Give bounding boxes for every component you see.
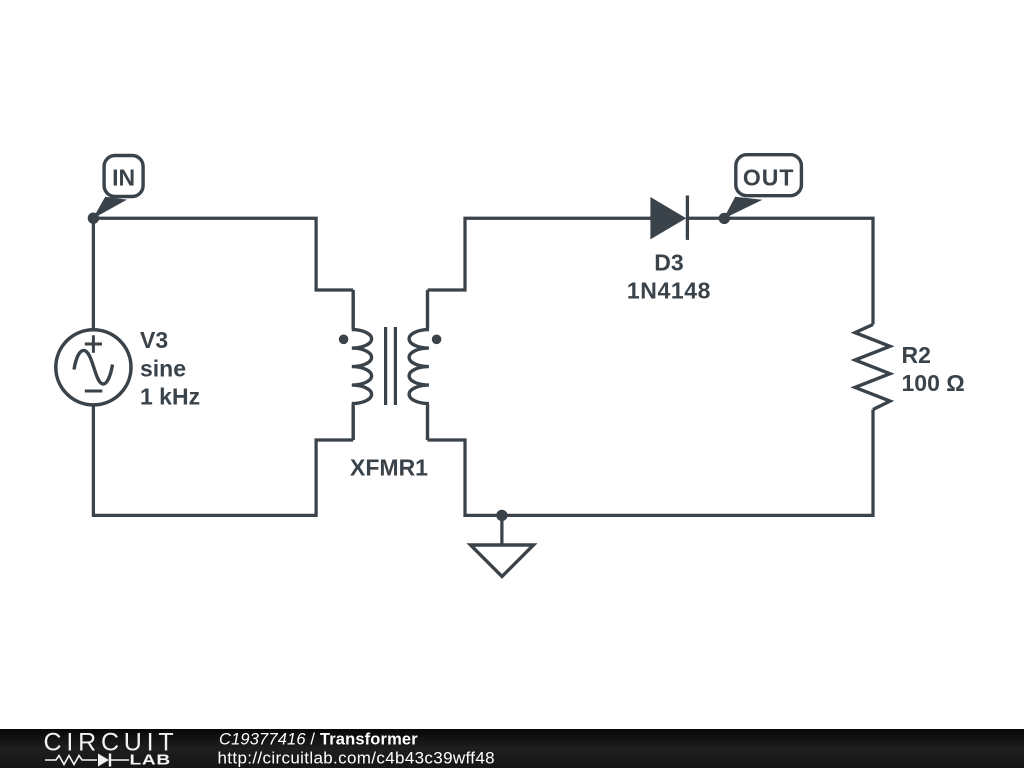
svg-text:IN: IN — [112, 164, 135, 190]
transformer XFMR1 right winding — [409, 290, 429, 440]
wire V3 bottom lead and primary bottom loop — [93, 405, 353, 516]
node dot OUT — [719, 213, 730, 224]
svg-text:sine: sine — [140, 355, 186, 381]
OUT flag tail — [724, 197, 763, 219]
svg-text:XFMR1: XFMR1 — [350, 455, 428, 481]
svg-text:1 kHz: 1 kHz — [140, 384, 200, 410]
IN flag box — [104, 156, 143, 197]
wire ground stem — [500, 515, 503, 544]
svg-text:1N4148: 1N4148 — [627, 278, 711, 304]
wire primary top: IN node to transformer top-left pin — [93, 218, 353, 290]
transformer left phasing dot — [339, 335, 349, 345]
transformer XFMR1 left winding — [352, 290, 372, 440]
wire secondary bottom: resistor bottom to ground rail to transformer bottom-right pin — [428, 410, 874, 516]
svg-text:C19377416 / Transformer: C19377416 / Transformer — [219, 730, 418, 748]
node dot ground — [496, 510, 507, 521]
CircuitLab logo schematic line: diode — [98, 754, 109, 767]
wire diode cathode to OUT node to right rail to resistor top — [688, 218, 873, 324]
diode D3 cathode bar — [686, 196, 689, 240]
svg-text:http://circuitlab.com/c4b43c39: http://circuitlab.com/c4b43c39wff48 — [218, 749, 495, 768]
IN flag tail — [93, 197, 127, 219]
svg-text:LAB: LAB — [130, 751, 171, 767]
OUT flag box — [736, 155, 802, 196]
transformer right phasing dot — [432, 335, 442, 345]
ground symbol — [471, 545, 534, 577]
CircuitLab logo schematic line: resistor — [45, 756, 97, 765]
svg-text:D3: D3 — [654, 249, 683, 275]
svg-text:100 Ω: 100 Ω — [902, 370, 965, 396]
voltage source sine wave — [74, 350, 113, 384]
wire secondary top: transformer top-right pin to diode anode — [428, 218, 652, 290]
svg-text:OUT: OUT — [743, 164, 795, 190]
voltage source V3 circle — [56, 330, 131, 405]
svg-text:R2: R2 — [902, 342, 931, 368]
wire V3 top lead — [92, 218, 95, 330]
resistor R2 zigzag — [855, 325, 890, 410]
transformer core lines — [384, 327, 387, 405]
diode D3 triangle — [651, 198, 685, 239]
voltage source plus sign — [85, 335, 102, 353]
voltage source minus sign — [85, 390, 103, 393]
svg-text:V3: V3 — [140, 327, 168, 353]
node dot IN — [88, 213, 99, 224]
